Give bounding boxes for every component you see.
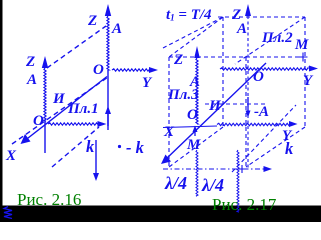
mini axis zigzag vertical xyxy=(196,58,198,124)
arrowhead of O1 wavy line xyxy=(98,121,107,127)
svg-text:k: k xyxy=(86,137,95,156)
lambda divider zigzag x=238 (long, crosses into strip) xyxy=(237,150,239,212)
main Z axis hatched upper part xyxy=(107,16,109,70)
Y axis wavy line (upper origin O2) xyxy=(112,69,150,71)
main Z axis of right figure: arrowhead xyxy=(245,4,251,16)
svg-text:O: O xyxy=(187,107,198,123)
svg-text:X: X xyxy=(5,148,17,164)
dashed horizontal mid-lower xyxy=(205,103,268,105)
lower Y' wavy part xyxy=(217,123,289,125)
svg-text:A: A xyxy=(111,21,122,37)
box depth edge bottom-left xyxy=(169,127,223,167)
plus tick on measure line xyxy=(238,165,246,173)
svg-text:-A: -A xyxy=(254,104,269,120)
small plus mark near upper M xyxy=(299,53,308,62)
k vector up-arrow on axis xyxy=(107,112,109,126)
svg-text:λ/4: λ/4 xyxy=(164,173,187,193)
extra dashed diagonal lower right xyxy=(232,105,296,172)
box depth edge bottom-right xyxy=(246,127,305,167)
lower Y' line: solid left part xyxy=(163,126,217,128)
svg-text:Z: Z xyxy=(87,13,97,29)
svg-text:- k: - k xyxy=(126,138,145,157)
dashed lower diagonal xyxy=(52,127,99,167)
X axis arrowhead xyxy=(21,134,31,144)
blue squiggle glyph in bottom strip xyxy=(4,207,12,219)
left mini Z-axis arrowhead xyxy=(42,56,48,68)
box front-right dashed vertical xyxy=(304,17,306,127)
back-top edge right extension xyxy=(246,56,303,58)
svg-text:M: M xyxy=(186,137,201,153)
-A field down-arrow on axis xyxy=(247,97,249,111)
box depth edge top-left xyxy=(163,17,223,57)
svg-text:И: И xyxy=(52,91,66,107)
svg-text:A: A xyxy=(236,21,247,37)
svg-text:O: O xyxy=(33,113,44,129)
main Z axis dashed vertical xyxy=(247,16,249,168)
svg-text:Рис. 2.17: Рис. 2.17 xyxy=(212,195,277,214)
box back-right dashed vertical xyxy=(245,57,247,167)
measure line at bottom (dash-dot with ticks) xyxy=(163,168,264,170)
left black margin xyxy=(0,0,3,222)
svg-text:Пл.2: Пл.2 xyxy=(261,30,293,46)
svg-text:Рис. 2.16: Рис. 2.16 xyxy=(17,190,81,209)
right X axis solid line xyxy=(166,63,267,160)
right Y axis arrowhead xyxy=(309,66,318,72)
main Z axis solid lower part xyxy=(107,70,109,130)
svg-text:И: И xyxy=(208,98,222,114)
node O1 wavy horizontal line xyxy=(48,123,99,125)
svg-text:M: M xyxy=(294,37,309,53)
mini axis arrowhead (right inner axis) xyxy=(194,46,200,58)
dashed plane top edge xyxy=(47,26,106,68)
svg-text:O: O xyxy=(253,69,264,85)
left mini Z-axis zigzag line xyxy=(44,68,46,121)
svg-text:O: O xyxy=(93,62,104,78)
dashed plane edge through O1 and O2 xyxy=(12,77,108,144)
box back-top dashed edge xyxy=(169,56,246,58)
box depth edge top-right xyxy=(235,17,305,64)
svg-text:Z: Z xyxy=(25,54,35,70)
left axis solid lower segment below O1 xyxy=(44,121,46,153)
box back-left dashed vertical xyxy=(168,57,170,167)
box front-left dashed vertical xyxy=(222,17,224,127)
right X axis arrowhead xyxy=(161,155,171,165)
lower Y' arrowhead xyxy=(289,121,298,127)
svg-text:A: A xyxy=(26,72,37,88)
right Y axis wavy line xyxy=(220,68,308,70)
svg-text:Пл.1: Пл.1 xyxy=(67,101,99,117)
lambda divider zigzag x=197 xyxy=(196,150,198,196)
main Z axis arrowhead xyxy=(105,4,111,16)
lower vertical line with down arrow (-k direction) xyxy=(95,140,97,175)
box front-top dashed edge xyxy=(218,16,305,18)
dot of -k mark xyxy=(118,145,121,148)
svg-text:Z: Z xyxy=(173,52,183,68)
svg-text:Пл.3: Пл.3 xyxy=(167,87,199,103)
M point up-arrow (lower) xyxy=(194,130,196,136)
svg-text:k: k xyxy=(285,139,294,158)
Y axis arrowhead xyxy=(149,67,158,73)
svg-text:X: X xyxy=(163,124,175,140)
svg-text:λ/4: λ/4 xyxy=(201,175,224,195)
X axis line (solid diagonal) xyxy=(26,77,108,141)
bottom black strip xyxy=(0,206,321,223)
